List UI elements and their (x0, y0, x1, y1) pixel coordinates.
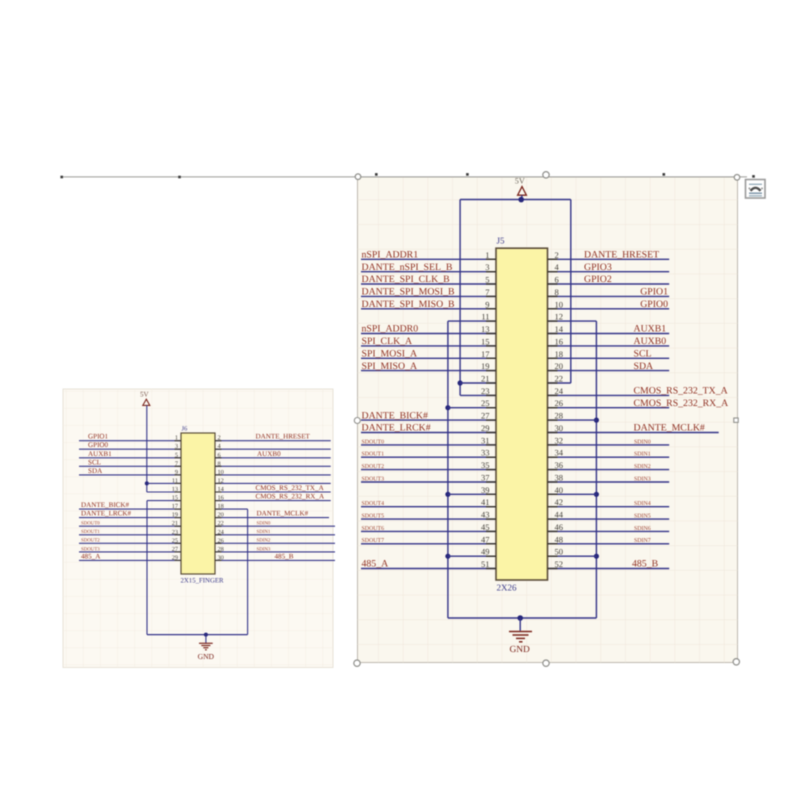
wire: net to pin 37 (J5 left) (361, 481, 496, 483)
vertex handle dot x=664 (663, 173, 666, 176)
wire: net to pin 10 (J5 right) (548, 308, 670, 310)
pin 14 of J6 (215, 486, 225, 493)
pin 10 of J6 (215, 469, 224, 476)
wire: net to pin 22 (J5 right) (548, 382, 571, 384)
svg-text:SDIN4: SDIN4 (634, 501, 651, 507)
wire: net to pin 31 (J5 left) (361, 444, 496, 446)
svg-text:50: 50 (555, 547, 564, 557)
svg-text:SCL: SCL (88, 458, 101, 466)
wire: net to pin 24 (J5 right) (548, 394, 670, 396)
svg-text:SDOUT4: SDOUT4 (362, 501, 385, 507)
pin 27 of J5 (481, 411, 496, 421)
wire: net to pin 44 (J5 right) (548, 518, 670, 520)
pin 8 of J5 (548, 287, 559, 297)
svg-text:SDA: SDA (634, 361, 654, 372)
svg-text:3: 3 (485, 262, 489, 272)
wire: GND right vertical (left block) (247, 509, 249, 634)
svg-text:7: 7 (175, 460, 178, 467)
svg-text:36: 36 (555, 460, 564, 470)
wire: net to pin 40 (J5 right) (548, 493, 597, 495)
pin 25 of J5 (481, 398, 496, 408)
junction: pin 49 on GND left vertical (445, 554, 450, 559)
svg-text:GPIO2: GPIO2 (584, 274, 612, 285)
selection handle square right-middle (734, 418, 738, 422)
pin 18 of J5 (548, 349, 564, 359)
wire: net to pin 20 (J5 right) (548, 370, 670, 372)
pin 15 of J5 (481, 336, 496, 346)
wire: net to pin 3 (J5 left) (361, 271, 496, 273)
pin 7 of J6 (175, 460, 182, 467)
wire: net to pin 42 (J5 right) (548, 506, 670, 508)
pin 45 of J5 (481, 522, 496, 532)
svg-text:31: 31 (481, 435, 490, 445)
wire: net to pin 14 (J6 right) (215, 491, 331, 493)
wire: net to pin 46 (J5 right) (548, 530, 670, 532)
svg-text:J5: J5 (497, 236, 506, 246)
svg-text:45: 45 (481, 522, 490, 532)
svg-text:16: 16 (218, 495, 224, 502)
wire: GND stem (left block) (205, 635, 207, 643)
wire: net to pin 38 (J5 right) (548, 481, 670, 483)
wire: net to pin 8 (J5 right) (548, 295, 670, 297)
svg-text:SDOUT6: SDOUT6 (362, 526, 385, 532)
svg-text:7: 7 (485, 287, 489, 297)
wire: net to pin 27 (J5 left) (361, 419, 496, 421)
pin 11 of J5 (481, 312, 496, 322)
pin 2 of J5 (548, 250, 559, 260)
svg-text:22: 22 (555, 374, 564, 384)
svg-text:SDIN6: SDIN6 (634, 526, 651, 532)
wire: GND left vertical (447, 321, 449, 618)
vertex handle dot left end (60, 176, 63, 179)
wire: net to pin 19 (J5 left) (361, 370, 496, 372)
svg-text:44: 44 (555, 510, 564, 520)
svg-text:SDOUT5: SDOUT5 (362, 514, 385, 520)
svg-text:11: 11 (172, 477, 178, 484)
svg-text:AUXB1: AUXB1 (634, 324, 667, 335)
junction: pin 21 on 5V left vertical (458, 380, 463, 385)
svg-text:DANTE_SPI_MOSI_B: DANTE_SPI_MOSI_B (362, 287, 456, 298)
pin 47 of J5 (481, 534, 496, 544)
pin 21 of J5 (481, 374, 496, 384)
selection handle circle left-middle (354, 418, 360, 424)
pin 44 of J5 (548, 510, 564, 520)
wire: net to pin 21 (J5 left) (460, 382, 496, 384)
wire: net to pin 29 (J6 left) (79, 559, 181, 561)
sheet area: right schematic block background (358, 177, 738, 663)
wire: net to pin 18 (J6 right) (215, 508, 248, 510)
svg-text:nSPI_ADDR0: nSPI_ADDR0 (362, 324, 419, 335)
svg-text:49: 49 (481, 547, 490, 557)
wire: net to pin 52 (J5 right) (548, 568, 670, 570)
svg-text:DANTE_MCLK#: DANTE_MCLK# (257, 510, 309, 518)
wire: GND right vertical (595, 321, 597, 618)
svg-text:13: 13 (172, 486, 178, 493)
svg-text:GND: GND (198, 652, 215, 661)
svg-text:18: 18 (218, 503, 224, 510)
pin 25 of J6 (172, 537, 181, 544)
svg-text:SDOUT1: SDOUT1 (362, 452, 385, 458)
svg-text:DANTE_HRESET: DANTE_HRESET (584, 250, 659, 261)
pin 39 of J5 (481, 485, 496, 495)
wire: net to pin 17 (J6 left) (79, 508, 181, 510)
pin 22 of J5 (548, 374, 564, 384)
svg-text:28: 28 (555, 411, 564, 421)
pin 38 of J5 (548, 473, 564, 483)
svg-text:2: 2 (555, 250, 559, 260)
svg-text:DANTE_HRESET: DANTE_HRESET (256, 433, 311, 441)
svg-text:25: 25 (481, 398, 490, 408)
svg-text:DANTE_nSPI_SEL_B: DANTE_nSPI_SEL_B (362, 262, 453, 273)
svg-text:17: 17 (172, 503, 178, 510)
pin 7 of J5 (485, 287, 496, 297)
svg-text:46: 46 (555, 522, 564, 532)
power symbol 5V (right block) (515, 177, 527, 200)
wire: 5V right vertical (570, 200, 572, 384)
svg-text:13: 13 (481, 324, 490, 334)
svg-text:SDIN7: SDIN7 (634, 538, 651, 544)
wire: net to pin 48 (J5 right) (548, 543, 670, 545)
pin 9 of J6 (175, 469, 182, 476)
svg-text:29: 29 (481, 423, 490, 433)
wire: net to pin 20 (J6 right) (215, 517, 329, 519)
connector J6 body (2X15 finger) (181, 433, 215, 574)
svg-text:42: 42 (555, 497, 564, 507)
junction: pin 50 on GND right vertical (594, 554, 599, 559)
svg-text:38: 38 (555, 473, 564, 483)
pin 3 of J5 (485, 262, 496, 272)
wire: net to pin 30 (J6 right) (215, 559, 335, 561)
pin 5 of J6 (175, 452, 182, 459)
svg-text:47: 47 (481, 534, 490, 544)
svg-text:SDIN5: SDIN5 (634, 514, 651, 520)
decoration icon: small image placeholder at top right (746, 180, 766, 199)
wire: net to pin 22 (J6 right) (215, 525, 335, 527)
svg-text:21: 21 (172, 520, 178, 527)
wire: net to pin 35 (J5 left) (361, 469, 496, 471)
pin 24 of J6 (215, 529, 225, 536)
wire: net to pin 16 (J5 right) (548, 345, 670, 347)
svg-text:48: 48 (555, 534, 564, 544)
pin 11 of J6 (172, 477, 181, 484)
wire: 5V rail top (right block) (460, 199, 571, 201)
svg-text:AUXB1: AUXB1 (88, 450, 112, 458)
svg-text:DANTE_BICK#: DANTE_BICK# (362, 410, 428, 421)
pin 24 of J5 (548, 386, 564, 396)
pin 20 of J5 (548, 361, 564, 371)
pin 13 of J5 (481, 324, 496, 334)
svg-text:SDOUT2: SDOUT2 (81, 538, 100, 544)
ground symbol GND (right block) (509, 632, 532, 655)
wire: net to pin 16 (J6 right) (215, 500, 331, 502)
svg-text:12: 12 (555, 312, 564, 322)
svg-text:DANTE_BICK#: DANTE_BICK# (81, 501, 130, 509)
svg-text:17: 17 (481, 349, 490, 359)
svg-text:32: 32 (555, 435, 564, 445)
wire: net to pin 1 (J5 left) (361, 258, 496, 260)
svg-text:24: 24 (555, 386, 564, 396)
wire: net to pin 13 (J6 left) (147, 491, 181, 493)
pin 1 of J5 (485, 250, 496, 260)
svg-text:CMOS_RS_232_RX_A: CMOS_RS_232_RX_A (256, 493, 325, 501)
svg-text:15: 15 (481, 336, 490, 346)
wire: net to pin 47 (J5 left) (361, 543, 496, 545)
pin 18 of J6 (215, 503, 224, 510)
wire: net to pin 17 (J5 left) (361, 357, 496, 359)
wire: net to pin 23 (J6 left) (79, 534, 181, 536)
wire: net to pin 36 (J5 right) (548, 469, 670, 471)
pin 37 of J5 (481, 473, 496, 483)
svg-text:DANTE_LRCK#: DANTE_LRCK# (81, 510, 132, 518)
svg-text:SDIN0: SDIN0 (257, 521, 271, 527)
pin 42 of J5 (548, 497, 564, 507)
svg-text:SDIN2: SDIN2 (634, 464, 651, 470)
pin 17 of J6 (172, 503, 181, 510)
wire: net to pin 51 (J5 left) (361, 568, 496, 570)
pin 52 of J5 (548, 559, 564, 569)
wire: net to pin 24 (J6 right) (215, 534, 335, 536)
svg-text:485_A: 485_A (362, 559, 389, 570)
svg-text:35: 35 (481, 460, 490, 470)
svg-text:19: 19 (481, 361, 490, 371)
svg-text:nSPI_ADDR1: nSPI_ADDR1 (362, 250, 419, 261)
pin 51 of J5 (481, 559, 496, 569)
pin 27 of J6 (172, 546, 181, 553)
pin 23 of J5 (481, 386, 496, 396)
svg-text:SPI_MISO_A: SPI_MISO_A (362, 361, 418, 372)
wire: net to pin 12 (J5 right) (548, 320, 597, 322)
wire: net to pin 32 (J5 right) (548, 444, 670, 446)
pin 50 of J5 (548, 547, 564, 557)
svg-text:SDOUT3: SDOUT3 (81, 546, 100, 552)
wire: net to pin 19 (J6 left) (79, 517, 181, 519)
wire: net to pin 4 (J6 right) (215, 448, 331, 450)
svg-text:DANTE_LRCK#: DANTE_LRCK# (362, 423, 431, 434)
svg-text:8: 8 (555, 287, 559, 297)
svg-text:SPI_CLK_A: SPI_CLK_A (362, 336, 413, 347)
ground symbol GND (left block) (198, 643, 215, 661)
wire: net to pin 9 (J6 left) (79, 474, 181, 476)
wire: net to pin 34 (J5 right) (548, 456, 670, 458)
svg-text:10: 10 (555, 299, 564, 309)
wire: 5V vertical (left block) (146, 405, 148, 492)
wire: net to pin 28 (J5 right) (548, 419, 597, 421)
pin 6 of J6 (215, 452, 222, 459)
svg-text:5V: 5V (140, 391, 149, 399)
wire: net to pin 28 (J6 right) (215, 551, 335, 553)
svg-text:27: 27 (172, 546, 178, 553)
svg-text:24: 24 (218, 529, 225, 536)
svg-text:GPIO0: GPIO0 (640, 299, 668, 310)
svg-text:J6: J6 (182, 426, 189, 433)
vertex handle dot x=376 (375, 173, 378, 176)
pin 22 of J6 (215, 520, 224, 527)
svg-text:485_A: 485_A (81, 552, 101, 560)
junction: pin 28 on GND right vertical (594, 418, 599, 423)
svg-text:27: 27 (481, 411, 490, 421)
svg-text:12: 12 (218, 477, 224, 484)
junction: 5V stem on rail (518, 197, 524, 203)
svg-text:2: 2 (218, 435, 221, 442)
vertex handle dot x=467 (466, 173, 469, 176)
sheet area: left schematic block background (63, 389, 333, 668)
svg-text:30: 30 (218, 554, 224, 561)
pin 4 of J6 (215, 443, 222, 450)
svg-text:41: 41 (481, 497, 490, 507)
wire: net to pin 27 (J6 left) (79, 551, 181, 553)
junction: GND stem on rail (left block) (204, 633, 208, 637)
wire: net to pin 21 (J6 left) (79, 525, 181, 527)
svg-text:8: 8 (218, 460, 221, 467)
svg-text:DANTE_SPI_CLK_B: DANTE_SPI_CLK_B (362, 274, 451, 285)
wire: net to pin 43 (J5 left) (361, 518, 496, 520)
pin 46 of J5 (548, 522, 564, 532)
svg-text:43: 43 (481, 510, 490, 520)
svg-text:20: 20 (218, 512, 224, 519)
pin 40 of J5 (548, 485, 564, 495)
pin 12 of J5 (548, 312, 564, 322)
pin 41 of J5 (481, 497, 496, 507)
svg-text:34: 34 (555, 448, 564, 458)
wire: GND bottom rail (right block) (448, 617, 597, 619)
junction: pin 25 on GND left vertical (445, 405, 450, 410)
svg-text:5: 5 (485, 275, 489, 285)
pin 49 of J5 (481, 547, 496, 557)
svg-text:6: 6 (555, 275, 559, 285)
pin 16 of J6 (215, 495, 224, 502)
pin 15 of J6 (172, 495, 181, 502)
wire: net to pin 10 (J6 right) (215, 474, 331, 476)
wire: long gray selection line across top (62, 176, 747, 178)
svg-text:GND: GND (510, 645, 531, 655)
wire: net to pin 18 (J5 right) (548, 357, 670, 359)
wire: net to pin 2 (J6 right) (215, 440, 331, 442)
wire: net to pin 4 (J5 right) (548, 271, 670, 273)
vertex handle dot right end (752, 175, 755, 178)
pin 2 of J6 (215, 435, 222, 442)
svg-text:25: 25 (172, 537, 178, 544)
pin 48 of J5 (548, 534, 564, 544)
pin 8 of J6 (215, 460, 222, 467)
svg-text:22: 22 (218, 520, 224, 527)
pin 5 of J5 (485, 275, 496, 285)
svg-text:30: 30 (555, 423, 564, 433)
wire: net to pin 23 (J5 left) (460, 394, 496, 396)
pin 30 of J5 (548, 423, 564, 433)
wire: net to pin 5 (J6 left) (79, 457, 181, 459)
wire: net to pin 15 (J5 left) (361, 345, 496, 347)
pin 26 of J5 (548, 398, 564, 408)
wire: net to pin 12 (J6 right) (215, 482, 331, 484)
pin 28 of J6 (215, 546, 224, 553)
wire: net to pin 11 (J6 left) (147, 482, 181, 484)
wire: net to pin 41 (J5 left) (361, 506, 496, 508)
svg-text:2X26: 2X26 (497, 583, 517, 593)
svg-text:18: 18 (555, 349, 564, 359)
pin 1 of J6 (175, 435, 182, 442)
svg-text:15: 15 (172, 495, 178, 502)
junction: pin 11 on 5V vertical (145, 481, 149, 485)
pin 36 of J5 (548, 460, 564, 470)
selection handle circle bottom-right corner (733, 659, 739, 665)
connector J5 body (2X26 header) (496, 248, 548, 580)
svg-text:2X15_FINGER: 2X15_FINGER (181, 578, 225, 585)
junction: GND stem on bottom rail (517, 615, 523, 621)
wire: net to pin 5 (J5 left) (361, 283, 496, 285)
wire: net to pin 9 (J5 left) (361, 308, 496, 310)
svg-text:DANTE_MCLK#: DANTE_MCLK# (634, 423, 705, 434)
wire: net to pin 29 (J5 left) (361, 432, 496, 434)
svg-text:1: 1 (175, 435, 178, 442)
pin 26 of J6 (215, 537, 224, 544)
svg-text:3: 3 (175, 443, 178, 450)
svg-text:39: 39 (481, 485, 490, 495)
pin 21 of J6 (172, 520, 181, 527)
svg-text:16: 16 (555, 336, 564, 346)
wire: net to pin 6 (J6 right) (215, 457, 331, 459)
selection handle circle bottom-middle (543, 660, 549, 666)
svg-text:SDOUT7: SDOUT7 (362, 538, 385, 544)
svg-text:28: 28 (218, 546, 224, 553)
pin 33 of J5 (481, 448, 496, 458)
svg-text:52: 52 (555, 559, 564, 569)
svg-text:SDOUT3: SDOUT3 (362, 476, 385, 482)
svg-text:SDIN3: SDIN3 (257, 546, 271, 552)
selection handle circle top-middle (543, 172, 549, 178)
svg-text:CMOS_RS_232_RX_A: CMOS_RS_232_RX_A (634, 398, 729, 409)
svg-text:AUXB0: AUXB0 (634, 336, 667, 347)
wire: net to pin 2 (J5 right) (548, 258, 670, 260)
svg-text:29: 29 (172, 554, 178, 561)
svg-text:37: 37 (481, 473, 490, 483)
svg-text:SDIN0: SDIN0 (634, 439, 651, 445)
svg-text:33: 33 (481, 448, 490, 458)
svg-text:SDOUT0: SDOUT0 (81, 521, 100, 527)
junction: pin 39 on GND left vertical (445, 492, 450, 497)
svg-text:SDIN1: SDIN1 (257, 529, 271, 535)
svg-text:GPIO1: GPIO1 (640, 287, 668, 298)
pin 32 of J5 (548, 435, 564, 445)
wire: GND left vertical (left block) (146, 501, 148, 635)
svg-text:14: 14 (218, 486, 225, 493)
svg-text:26: 26 (555, 398, 564, 408)
wire: net to pin 7 (J6 left) (79, 465, 181, 467)
wire: net to pin 14 (J5 right) (548, 333, 670, 335)
pin 4 of J5 (548, 262, 560, 272)
wire: GND bottom rail (left block) (147, 634, 248, 636)
pin 43 of J5 (481, 510, 496, 520)
svg-text:9: 9 (485, 299, 489, 309)
svg-text:21: 21 (481, 374, 490, 384)
svg-text:23: 23 (172, 529, 178, 536)
pin 19 of J6 (172, 512, 181, 519)
wire: net to pin 25 (J5 left) (448, 407, 496, 409)
svg-text:5: 5 (175, 452, 178, 459)
svg-text:SDIN1: SDIN1 (634, 452, 651, 458)
svg-text:CMOS_RS_232_TX_A: CMOS_RS_232_TX_A (256, 484, 325, 492)
svg-text:DANTE_SPI_MISO_B: DANTE_SPI_MISO_B (362, 299, 456, 310)
wire: net to pin 50 (J5 right) (548, 555, 597, 557)
svg-text:GPIO0: GPIO0 (88, 441, 109, 449)
pin 20 of J6 (215, 512, 224, 519)
svg-text:GPIO3: GPIO3 (584, 262, 612, 273)
pin 31 of J5 (481, 435, 496, 445)
wire: net to pin 26 (J6 right) (215, 542, 335, 544)
svg-text:SPI_MOSI_A: SPI_MOSI_A (362, 349, 418, 360)
wire: net to pin 13 (J5 left) (361, 333, 496, 335)
svg-text:11: 11 (481, 312, 489, 322)
pin 14 of J5 (548, 324, 564, 334)
